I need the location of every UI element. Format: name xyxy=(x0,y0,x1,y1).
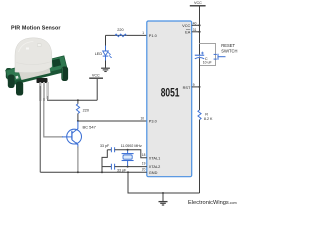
transistor Q1 BC547 xyxy=(62,121,97,148)
svg-text:18: 18 xyxy=(142,153,146,157)
svg-text:11.0592 MHz: 11.0592 MHz xyxy=(121,144,142,148)
svg-text:VCC: VCC xyxy=(182,24,190,28)
svg-text:XTAL1: XTAL1 xyxy=(149,156,160,160)
svg-text:9: 9 xyxy=(193,83,195,87)
resistor R 8.2K xyxy=(198,87,213,193)
node: pin31 tap xyxy=(198,31,200,33)
8051 chip U1 xyxy=(147,21,192,177)
wire: gnd tap for caps xyxy=(102,150,107,173)
resistor 220 (vertical, collector pull-up) xyxy=(76,100,89,121)
node: crystal bottom junction xyxy=(127,166,129,168)
PIR sensor module xyxy=(6,38,68,101)
node: RST junction xyxy=(199,86,201,88)
pin 40 VCC xyxy=(192,24,200,26)
svg-text:40: 40 xyxy=(193,21,197,25)
svg-text:R: R xyxy=(205,113,208,117)
LED D1 xyxy=(95,46,112,62)
sensor cable 2 xyxy=(43,82,45,101)
svg-text:BC 547: BC 547 xyxy=(83,124,97,129)
svg-text:SWITCH: SWITCH xyxy=(221,48,237,53)
svg-text:220: 220 xyxy=(83,109,89,113)
ground (LED) xyxy=(101,68,110,71)
node: collector / resistor / P3.0 junction xyxy=(77,120,79,122)
crystal X1 11.0592 MHz xyxy=(121,144,142,167)
svg-text:P1.0: P1.0 xyxy=(149,34,157,38)
VCC symbol (top right) xyxy=(190,1,206,54)
node: ground tap xyxy=(162,192,164,194)
svg-text:P3.0: P3.0 xyxy=(149,120,157,124)
ground (bottom) xyxy=(159,193,168,205)
reset switch SW1 xyxy=(214,43,238,60)
wire: rail branch down to bottom wire xyxy=(128,172,200,193)
wire: ground rail xyxy=(40,171,147,173)
node: branch down on rail xyxy=(127,171,129,173)
wire: LED cathode to ground xyxy=(105,61,107,68)
resistor 220 (horizontal, LED series) xyxy=(115,28,126,37)
svg-text:PIR Motion Sensor: PIR Motion Sensor xyxy=(11,26,61,32)
board rear post xyxy=(6,68,12,79)
pads on board xyxy=(11,77,14,80)
svg-text:19: 19 xyxy=(142,162,146,166)
node: vcc rail / resistor junction xyxy=(77,99,79,101)
svg-text:VCC: VCC xyxy=(92,74,100,78)
node: crystal top junction xyxy=(127,149,129,151)
wire: LED branch P1.0 line xyxy=(106,34,147,36)
svg-text:10 uF: 10 uF xyxy=(203,61,212,65)
standoff post right xyxy=(61,67,68,82)
sensor cable 3 xyxy=(47,82,49,99)
svg-text:EA: EA xyxy=(185,31,191,35)
capacitor 33pF (bottom) xyxy=(102,164,147,173)
svg-text:20: 20 xyxy=(142,168,146,172)
node: caps tap on rail xyxy=(101,171,103,173)
svg-text:LED: LED xyxy=(95,52,103,56)
standoff post left xyxy=(8,75,15,89)
svg-text:VCC: VCC xyxy=(194,1,202,5)
svg-text:1: 1 xyxy=(142,31,144,35)
wire: PIR out pin down and right to transistor base xyxy=(44,98,63,137)
svg-text:GND: GND xyxy=(149,171,158,175)
svg-text:8051: 8051 xyxy=(161,86,180,100)
node: emitter on rail xyxy=(77,171,79,173)
wire: junction to 8051 P3.0 xyxy=(78,120,147,122)
svg-text:XTAL2: XTAL2 xyxy=(149,165,160,169)
fresnel lens dome xyxy=(15,38,52,73)
capacitor 33pF (top) xyxy=(100,144,147,158)
board top face xyxy=(6,56,68,86)
svg-text:220: 220 xyxy=(117,28,123,32)
sensor cable 1 xyxy=(39,82,41,101)
wire: PIR vcc pin to vcc rail xyxy=(47,96,49,100)
capacitor C 10uF xyxy=(195,44,212,87)
wire: down to LED xyxy=(105,35,107,46)
svg-text:10: 10 xyxy=(141,117,145,121)
svg-text:RST: RST xyxy=(183,86,191,90)
svg-text:31: 31 xyxy=(193,28,197,32)
pin 9 RST xyxy=(192,86,200,88)
pin 31 EA xyxy=(192,31,200,33)
node: pin40 tap xyxy=(198,24,200,26)
VCC symbol (near PIR) xyxy=(89,74,103,101)
wire: emitter to ground rail xyxy=(77,147,79,173)
reset switch box xyxy=(200,44,216,66)
wire: PIR gnd pin down to ground rail xyxy=(39,86,41,172)
svg-text:8.2 K: 8.2 K xyxy=(204,117,213,121)
standoff post front-left xyxy=(16,82,23,96)
svg-text:33 pF: 33 pF xyxy=(100,144,110,148)
svg-text:33 pF: 33 pF xyxy=(117,168,127,172)
lens holder flange xyxy=(18,65,51,81)
header connector xyxy=(37,78,48,83)
